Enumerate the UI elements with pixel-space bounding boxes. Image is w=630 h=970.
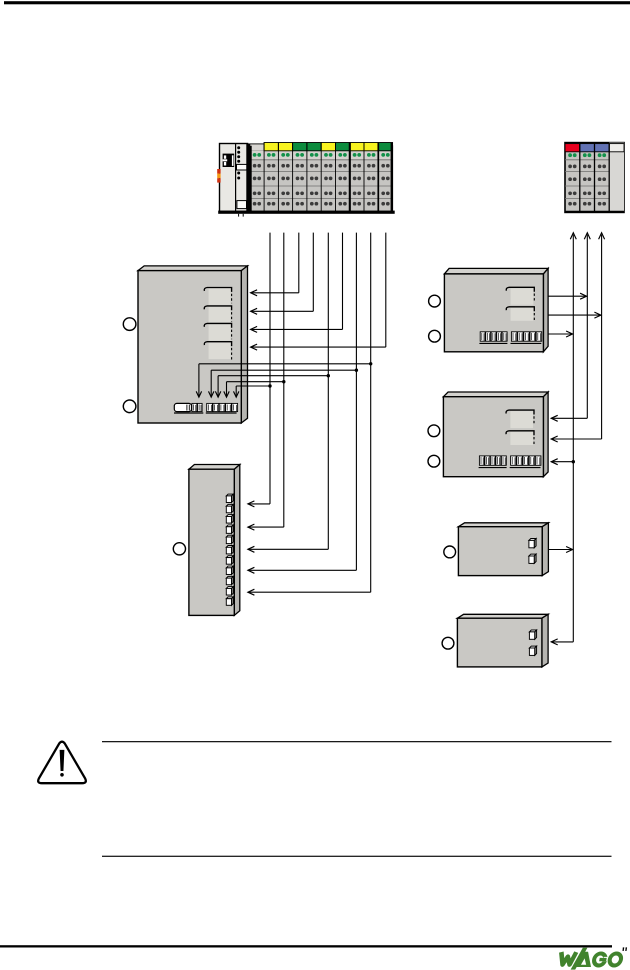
lamp symbol E3 in U1 [204, 323, 231, 340]
device U4 DALI ballast unit (middle right) [443, 392, 548, 477]
coupler fieldbus connector [223, 154, 235, 167]
device U3 DALI ballast unit (upper right) [444, 268, 548, 351]
tap v5 to U1 terminal 3 [215, 374, 330, 397]
wire v4 module5 to U1 lamp2 [251, 233, 314, 315]
coupler status LEDs [237, 146, 240, 179]
wire v6 module7 to U1 lamp3 [251, 233, 343, 333]
wire w3 into U4 input 2 [551, 436, 601, 442]
coupler-to-strip black rail [246, 144, 250, 212]
wire U3 output 1 to w2 [548, 293, 587, 299]
device U1 electronic ballast unit (upper left) [138, 266, 248, 423]
node bottom rail [218, 211, 395, 214]
page top rule [4, 1, 630, 4]
I/O module strip body [250, 144, 393, 212]
tap v2 to U1 terminal 4 [224, 380, 286, 397]
note rule top [102, 741, 612, 742]
wire v9 module10 to U1 lamp4 [251, 233, 386, 351]
bus wire w1 (right riser 1) [570, 233, 576, 642]
tap v7 to U1 terminal 2 [209, 369, 359, 398]
module contact dots [253, 153, 390, 206]
wire v8 module9 down to U2 row5 [248, 233, 371, 596]
callout circle 3 (U2) [173, 543, 185, 555]
output module caps (red/blue) [565, 144, 624, 152]
fieldbus coupler body [220, 144, 248, 212]
callout circle 5 (U3 bottom) [429, 330, 441, 342]
footer rule [0, 945, 612, 947]
lamp symbol E4 in U1 [204, 342, 231, 360]
output module block body [565, 143, 624, 213]
bus wire w2 (right riser 2) [584, 233, 590, 418]
wire w1 into U6 input [551, 639, 573, 645]
wire U5 output to w1 [549, 547, 574, 553]
bus wire w3 (right riser 3) [599, 233, 605, 439]
U1 control terminal clips [206, 403, 238, 413]
U3 terminal clips group A [479, 332, 507, 344]
output module contact dots [568, 153, 606, 205]
device U2 lamp distribution strip (lower left) [189, 465, 240, 616]
lamp symbol in U3 (bottom) [506, 307, 534, 322]
callout circle 2 (U1 bottom) [123, 400, 136, 413]
wire U3 output 2 to w3 [548, 312, 602, 318]
wire v5 module6 down to U2 row3 [248, 233, 328, 553]
U3 terminal clips group B [511, 332, 542, 344]
wire v1 module2 down to U2 row1 [248, 233, 270, 507]
module dividers [250, 143, 391, 212]
callout circle 4 (U3 top) [429, 295, 441, 307]
output module dividers [565, 144, 624, 213]
note rule bottom [102, 856, 612, 857]
callout circle 1 (U1 top) [123, 318, 136, 331]
coupler mounting feet ticks [239, 214, 244, 217]
module colour caps (yellow/green) [264, 143, 392, 151]
coupler orange release latch [217, 169, 220, 183]
U4 terminal clips group B [510, 456, 541, 468]
warning triangle [38, 742, 86, 784]
WAGO logo [559, 947, 627, 969]
wire v2 module3 down to U2 row2 [248, 233, 284, 530]
U6 terminal cubes [529, 630, 536, 655]
device U6 control unit (bottom right) [457, 614, 548, 667]
wire v7 module8 down to U2 row4 [248, 233, 357, 574]
lamp symbol in U4 (top) [506, 410, 534, 428]
tap v8 to U1 terminal 1 [196, 362, 372, 397]
device U5 control unit (third right) [458, 523, 548, 576]
lamp symbol in U4 (bottom) [506, 431, 534, 446]
U4 terminal clips group A [479, 456, 507, 468]
wire U3 output 3 to w1 [548, 331, 573, 337]
wire v3 module4 to U1 lamp1 [251, 233, 299, 296]
lamp symbol E2 in U1 [204, 306, 231, 323]
callout circle 6 (U4 top) [428, 425, 440, 437]
callout circle 7 (U4 bottom) [428, 455, 440, 467]
lamp symbol E1 in U1 [204, 288, 231, 305]
U1 mains terminal clips [174, 403, 203, 413]
wire w2 into U4 input 1 [551, 415, 587, 421]
wire w1 into U4 input 3 (junction) [551, 459, 575, 465]
lamp symbol in U3 (top) [506, 287, 534, 305]
callout circle 8 (U5) [444, 546, 456, 558]
U1 mains terminal pill [174, 403, 191, 411]
coupler configuration interface cover [237, 164, 247, 170]
callout circle 9 (U6) [442, 637, 454, 649]
U2 terminal cubes [226, 494, 233, 605]
coupler supply module window [237, 201, 247, 209]
U5 terminal cubes [529, 539, 536, 564]
tap v1 to U1 terminal 5 [234, 384, 272, 397]
